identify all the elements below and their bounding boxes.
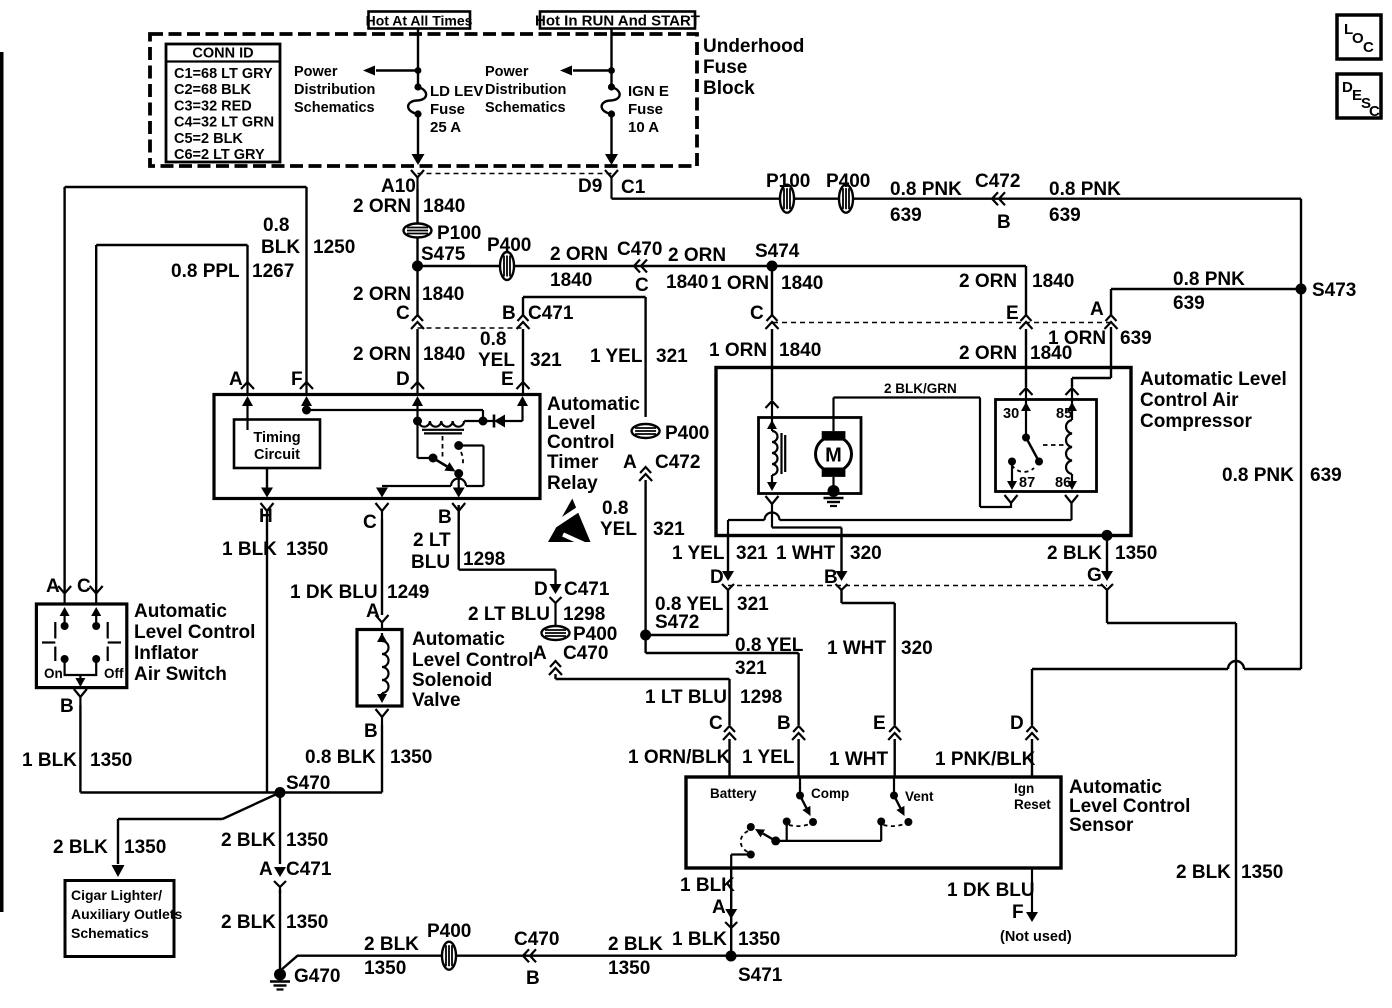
comp travel arc (dashed) — [789, 824, 811, 827]
svg-text:LD LEV: LD LEV — [430, 83, 483, 100]
connector: relay pin C (bottom) — [376, 503, 389, 519]
wire: Hot In RUN And START to IGN E fuse — [610, 28, 612, 87]
sensor battery arm — [755, 829, 776, 841]
svg-text:2 BLK: 2 BLK — [364, 934, 419, 955]
label: Automatic Level Control Timer Relay — [547, 394, 640, 494]
label: Automatic Level Control Solenoid Valve — [412, 629, 533, 711]
label: 0.8 BLK 1350 — [305, 747, 432, 768]
svg-text:C472: C472 — [655, 452, 700, 473]
splice S472 — [640, 630, 651, 641]
wire: S474 to compressor E drop — [772, 265, 1026, 267]
connector terminal D9 — [605, 170, 618, 199]
motor pin stem — [771, 509, 773, 528]
svg-text:0.8: 0.8 — [480, 329, 506, 350]
label: 2 ORN 1840 (S475 drop) — [353, 284, 464, 305]
connector pin G (compressor bottom) — [1101, 535, 1113, 590]
wire: sensor pin F (not used) — [1026, 868, 1038, 922]
grommet P400 (S475 bus) — [500, 252, 514, 280]
svg-text:B: B — [438, 507, 452, 528]
wire: relay F to inflator A (0.8 BLK 1250) — [65, 187, 307, 593]
label: C (C470) — [635, 275, 649, 296]
label: A C470 — [533, 643, 608, 664]
label: C472 — [975, 171, 1020, 192]
svg-text:C2=68 BLK: C2=68 BLK — [174, 82, 251, 98]
svg-text:Block: Block — [703, 78, 755, 99]
svg-text:S472: S472 — [655, 612, 699, 633]
connector: relay pin A — [241, 382, 254, 394]
label: 1 WHT 320 (to sensor E) — [827, 638, 933, 659]
connector: solenoid pin B — [364, 709, 389, 742]
wire: compressor G to ground bus (2 BLK 1350) — [1107, 590, 1236, 956]
label: F (sensor) — [1012, 902, 1024, 923]
svg-text:C1: C1 — [621, 177, 646, 198]
svg-text:Hot In RUN And START: Hot In RUN And START — [535, 13, 700, 30]
svg-text:1350: 1350 — [608, 958, 650, 979]
wire: S470 down (2 BLK 1350) — [279, 793, 281, 865]
svg-text:1350: 1350 — [286, 830, 328, 851]
connector C471 pin A — [274, 867, 286, 893]
wire: ground riser — [281, 956, 298, 970]
label: LD LEV Fuse 25 A — [430, 83, 483, 136]
motor case ground — [824, 477, 844, 506]
svg-text:Sensor: Sensor — [1069, 815, 1134, 836]
connector: relay pin H — [261, 503, 274, 519]
wire: ground bus G470 to S471 to right riser (2 BLK 1350) — [297, 955, 1236, 957]
connector: relay pin F — [300, 382, 313, 394]
compressor assembly: Automatic Level Control Air Compressor box — [716, 368, 1131, 536]
label: 2 ORN 1840 (right of C470) — [666, 245, 726, 293]
label box: Hot At All Times — [366, 12, 473, 29]
svg-text:Off: Off — [104, 666, 124, 681]
wire: sensor D into box — [1031, 739, 1033, 776]
svg-text:1 DK BLU: 1 DK BLU — [947, 880, 1035, 901]
junction: compressor ground pin G — [1102, 530, 1113, 541]
svg-text:2 ORN: 2 ORN — [668, 245, 726, 266]
splice S474 — [755, 241, 800, 272]
label: Automatic Level Control Inflator Air Switch — [134, 601, 255, 685]
wire arrow to Power Distribution Schematics (left) — [363, 66, 418, 76]
ESD sensitivity symbol — [548, 499, 593, 549]
splice S475 — [412, 244, 466, 272]
ground G470 — [270, 969, 290, 990]
svg-text:Battery: Battery — [710, 786, 757, 801]
wire: relay pin F bus to coil/diode node — [302, 406, 488, 426]
svg-text:P400: P400 — [665, 423, 709, 444]
svg-text:2 LT: 2 LT — [413, 530, 451, 551]
svg-text:C: C — [709, 713, 723, 734]
svg-text:0.8 PNK: 0.8 PNK — [890, 179, 962, 200]
sensor assembly: Automatic Level Control Sensor box — [686, 777, 1061, 868]
label: 1 LT BLU 1298 — [645, 687, 782, 708]
svg-text:A: A — [1090, 299, 1104, 320]
label: 2 BLK 1350 (cigar branch) — [53, 837, 166, 858]
inflator right fixed contact — [108, 622, 121, 661]
svg-text:1298: 1298 — [563, 604, 605, 625]
svg-text:C: C — [1363, 39, 1374, 56]
connector pin A (battery exit) — [725, 909, 737, 928]
wire: S475 down (2 ORN 1840) — [416, 266, 418, 317]
svg-text:Vent: Vent — [905, 789, 934, 804]
wire: S474 bus corner down to compressor E — [1025, 266, 1027, 315]
svg-text:Fuse: Fuse — [703, 57, 747, 78]
svg-text:C470: C470 — [617, 239, 662, 260]
connector pin D (compressor bottom) — [722, 535, 734, 590]
wire: fuse to D9 terminal — [605, 114, 618, 165]
svg-text:P400: P400 — [573, 624, 617, 645]
svg-text:1840: 1840 — [423, 344, 465, 365]
wire: NO loop to relay pin C — [376, 486, 451, 498]
label: 2 LT BLU 1298 (below C471) — [468, 604, 605, 625]
vent travel arc (dashed) — [884, 824, 906, 827]
sensor vent switch arm — [890, 777, 905, 816]
wire: relay H to S470 (1 BLK 1350) — [266, 519, 268, 793]
svg-text:Control: Control — [547, 432, 615, 453]
timing circuit box — [234, 420, 320, 469]
svg-text:YEL: YEL — [478, 350, 515, 371]
svg-text:B: B — [60, 696, 74, 717]
svg-text:2 BLK: 2 BLK — [1176, 862, 1231, 883]
svg-text:E: E — [501, 369, 514, 390]
svg-text:1 BLK: 1 BLK — [222, 539, 277, 560]
wire: A10 to S475 — [416, 189, 418, 266]
svg-text:0.8: 0.8 — [602, 498, 628, 519]
labels: On / Off — [44, 666, 124, 681]
svg-text:1 PNK/BLK: 1 PNK/BLK — [935, 749, 1036, 770]
svg-text:Level Control: Level Control — [134, 622, 255, 643]
svg-text:1 ORN: 1 ORN — [709, 340, 767, 361]
svg-text:1 BLK: 1 BLK — [680, 875, 735, 896]
label: H (relay) — [259, 506, 273, 527]
compressor relay box — [996, 400, 1097, 492]
svg-text:0.8 PNK: 0.8 PNK — [1173, 269, 1245, 290]
connector: solenoid pin A — [376, 615, 389, 630]
svg-text:2 ORN: 2 ORN — [353, 196, 411, 217]
label: D (compressor) — [710, 567, 724, 588]
grommet P400 (ground bus) — [442, 942, 456, 970]
fuse F1: LD LEV Fuse 25 A symbol — [408, 83, 426, 117]
svg-text:B: B — [997, 212, 1011, 233]
svg-text:D: D — [1010, 713, 1024, 734]
wire: inflator B to S470 (1 BLK 1350) — [80, 705, 280, 793]
grommet P100 (right) — [780, 185, 794, 213]
svg-text:2 BLK/GRN: 2 BLK/GRN — [884, 381, 957, 396]
svg-text:Automatic Level: Automatic Level — [1140, 369, 1287, 390]
svg-text:C472: C472 — [975, 171, 1020, 192]
grommet P400 (C471-D column) — [542, 626, 570, 640]
svg-text:BLK: BLK — [261, 237, 300, 258]
svg-text:S474: S474 — [755, 241, 800, 262]
label: Power Distribution Schematics (right) — [485, 64, 566, 116]
svg-text:0.8 YEL: 0.8 YEL — [735, 635, 804, 656]
compressor relay coil (85-86) — [1066, 400, 1077, 491]
svg-text:Comp: Comp — [811, 786, 849, 801]
label: Automatic Level Control Air Compressor — [1140, 369, 1287, 432]
label: 0.8 YEL 321 (C471-B to relay E) — [478, 329, 562, 371]
svg-text:C4=32 LT GRN: C4=32 LT GRN — [174, 115, 274, 131]
svg-text:2 BLK: 2 BLK — [221, 830, 276, 851]
svg-text:C470: C470 — [514, 929, 559, 950]
motor M1 (compressor motor) — [816, 436, 852, 472]
label: A (inflator) — [46, 576, 60, 597]
wire: compressor pin D to relay pin 86 (hop over motor stem) — [728, 508, 1072, 535]
label: 2 ORN 1840 (left of C470) — [550, 244, 608, 291]
wire: C471-C to relay pin D (2 ORN 1840) — [416, 329, 418, 382]
wire: 2 BLK/GRN motor to relay pin 87 — [834, 398, 1012, 508]
wire: Hot At All Times to LD LEV fuse — [417, 28, 419, 87]
CONN ID table — [166, 44, 280, 163]
connector: relay pin D — [411, 382, 424, 394]
svg-text:Reset: Reset — [1014, 797, 1051, 812]
relay internal pin A arrow — [242, 396, 253, 430]
svg-text:Fuse: Fuse — [430, 101, 465, 118]
connector: compressor relay pin 85 feed — [1066, 388, 1079, 400]
svg-text:2 ORN: 2 ORN — [353, 284, 411, 305]
wire hop over right riser — [1228, 661, 1244, 669]
label: 0.8 BLK 1250 — [261, 215, 355, 258]
connector C1 boundary (dashed) — [418, 173, 612, 175]
connector: inflator pin C — [90, 586, 103, 604]
svg-text:G470: G470 — [294, 966, 340, 987]
wire: sensor E into box — [894, 739, 896, 776]
wire arrow to Power Distribution Schematics (right) — [560, 66, 612, 76]
svg-text:C: C — [635, 275, 649, 296]
inflator contact A arrow — [60, 607, 70, 630]
svg-text:Timing: Timing — [253, 430, 300, 446]
battery contact dot — [747, 823, 755, 831]
label: 1 YEL 321 — [590, 346, 688, 367]
svg-text:1840: 1840 — [779, 340, 821, 361]
splice S470 — [275, 773, 331, 798]
wire: S473 vertical (0.8 PNK 639) — [1300, 199, 1302, 669]
svg-text:C3=32 RED: C3=32 RED — [174, 98, 252, 114]
svg-text:10 A: 10 A — [628, 119, 659, 136]
label: C (C471) — [396, 303, 410, 324]
svg-text:A: A — [623, 452, 637, 473]
wire: S473 to compressor pin A — [1111, 288, 1301, 290]
label: 0.8 YEL 321 (relay E drop) — [600, 498, 685, 540]
armature travel arc (dashed) — [461, 452, 463, 466]
icon: LOC — [1337, 15, 1381, 59]
svg-text:C: C — [363, 512, 377, 533]
junction at LD LEV fuse feed — [415, 67, 422, 74]
label: 2 BLK 1350 (right of C470) — [608, 934, 663, 979]
connector pin C (sensor) — [723, 726, 736, 740]
label: B (C470) — [526, 968, 540, 989]
label: 2 ORN 1840 (to relay D) — [353, 344, 465, 365]
svg-text:321: 321 — [735, 658, 767, 679]
solenoid L1: Automatic Level Control Solenoid Valve box — [357, 630, 402, 707]
svg-text:A: A — [259, 859, 273, 880]
label: 2 ORN 1840 (E drop upper) — [959, 271, 1074, 292]
svg-text:Automatic: Automatic — [412, 629, 505, 650]
splice S473 — [1296, 280, 1357, 301]
label: E (compressor) — [1006, 303, 1019, 324]
svg-text:Inflator: Inflator — [134, 643, 199, 664]
svg-text:Level Control: Level Control — [1069, 796, 1190, 817]
svg-text:C: C — [77, 576, 91, 597]
label: P400 — [826, 171, 870, 192]
label: 2 BLK/GRN — [884, 381, 957, 396]
svg-text:1298: 1298 — [740, 687, 782, 708]
reference box: Cigar Lighter/Auxiliary Outlets Schematics — [65, 881, 174, 957]
svg-text:Air Switch: Air Switch — [134, 664, 227, 685]
wire: compressor D to S472 (0.8 YEL 321) — [646, 590, 728, 635]
wire: S472 to sensor B (0.8 YEL 321) — [646, 635, 799, 725]
svg-text:Auxiliary Outlets: Auxiliary Outlets — [71, 906, 182, 922]
connector: relay pin E — [517, 382, 530, 394]
svg-text:2 BLK: 2 BLK — [608, 934, 663, 955]
label: Automatic Level Control Sensor — [1069, 777, 1190, 836]
label: D (sensor) — [1010, 713, 1024, 734]
label: P400 (bus) — [487, 235, 531, 256]
connector pin D (sensor) — [1026, 726, 1039, 740]
label: B (C471) — [502, 303, 516, 324]
svg-text:C: C — [1369, 103, 1380, 120]
icon: DESC — [1337, 74, 1381, 120]
label: IGN E Fuse 10 A — [628, 83, 669, 136]
vent riser — [877, 818, 885, 841]
svg-text:C471: C471 — [528, 303, 574, 324]
svg-text:1350: 1350 — [286, 912, 328, 933]
connector: motor assembly pin (below) — [766, 496, 779, 509]
comp riser — [783, 818, 791, 841]
svg-text:E: E — [873, 713, 886, 734]
wire: S474 down to compressor C (1 ORN 1840) — [771, 266, 773, 315]
svg-text:P400: P400 — [487, 235, 531, 256]
wire: motor pin to compressor pin B — [772, 528, 842, 536]
connector: relay pin B (bottom) — [438, 503, 465, 528]
svg-text:M: M — [825, 445, 842, 467]
wire: timing circuit to relay pin H — [261, 468, 273, 498]
label: D (relay) — [396, 369, 410, 390]
label: C1 — [621, 177, 646, 198]
svg-text:Distribution: Distribution — [294, 82, 375, 98]
label: C (sensor) — [709, 713, 723, 734]
connector: inflator pin B — [60, 689, 87, 717]
connector C472 pin A — [639, 467, 652, 481]
label: A (battery exit) — [712, 897, 726, 918]
motor suppression coil — [767, 418, 785, 492]
svg-text:321: 321 — [530, 350, 562, 371]
wire: 1 ORN 639 into relay pin 85 — [1072, 327, 1111, 387]
svg-text:S473: S473 — [1312, 280, 1356, 301]
label: Power Distribution Schematics (left) — [294, 64, 375, 116]
svg-text:1 WHT: 1 WHT — [776, 543, 836, 564]
label: B (sensor) — [777, 713, 791, 734]
connector terminal A10 — [411, 170, 424, 189]
mechanical link (dashed) coil to armature — [442, 436, 444, 458]
svg-text:A: A — [533, 643, 547, 664]
svg-text:1350: 1350 — [90, 750, 132, 771]
svg-text:639: 639 — [1049, 205, 1081, 226]
svg-text:639: 639 — [1120, 328, 1152, 349]
label: 1 WHT (sensor E) — [829, 749, 889, 770]
connector C470 pin C (in-line) — [634, 260, 647, 273]
svg-text:B: B — [364, 721, 378, 742]
relay coil K1 — [413, 417, 464, 434]
svg-text:1840: 1840 — [423, 196, 465, 217]
svg-text:1 YEL: 1 YEL — [672, 543, 725, 564]
svg-text:D: D — [396, 369, 410, 390]
diode CR1 (relay) — [483, 415, 523, 428]
label: F (relay) — [291, 369, 303, 390]
svg-text:1 ORN: 1 ORN — [711, 273, 769, 294]
svg-text:Ign: Ign — [1014, 781, 1034, 796]
label: 0.8 YEL 321 (compressor D leg) — [655, 594, 769, 615]
svg-text:1350: 1350 — [738, 929, 780, 950]
wire: NO contact loop — [459, 446, 484, 487]
label: 1 ORN 1840 (C drop lower) — [709, 340, 821, 361]
svg-text:1 DK BLU: 1 DK BLU — [290, 582, 378, 603]
svg-text:1 WHT: 1 WHT — [827, 638, 887, 659]
svg-text:C470: C470 — [563, 643, 608, 664]
svg-text:Automatic: Automatic — [547, 394, 640, 415]
svg-text:Hot At All Times: Hot At All Times — [366, 13, 473, 29]
label: 0.8 PNK 639 (right of C472) — [1049, 179, 1121, 226]
connector: motor assembly feed — [766, 401, 779, 418]
connector C471 pin B — [517, 315, 530, 329]
connector C470 pin B (in-line) — [523, 949, 536, 962]
relay NO contact dot — [454, 441, 463, 450]
svg-text:0.8: 0.8 — [263, 215, 289, 236]
svg-text:639: 639 — [1310, 465, 1342, 486]
wire: to sensor D (1 PNK/BLK) — [1032, 669, 1228, 725]
labels: relay pins 30 85 87 86 — [1003, 406, 1072, 491]
svg-text:1298: 1298 — [463, 549, 505, 570]
svg-text:Schematics: Schematics — [294, 100, 375, 116]
svg-text:2 BLK: 2 BLK — [53, 837, 108, 858]
label: D9 — [578, 176, 602, 197]
wire: C470-A to sensor C (1 LT BLU 1298) — [556, 674, 730, 725]
svg-text:Automatic: Automatic — [134, 601, 227, 622]
label: 0.8 PPL 1267 — [171, 261, 294, 282]
mechanical link (dashed) — [1043, 444, 1064, 446]
svg-text:D9: D9 — [578, 176, 602, 197]
svg-text:S475: S475 — [421, 244, 466, 265]
svg-text:Circuit: Circuit — [254, 447, 300, 463]
svg-text:B: B — [526, 968, 540, 989]
wire: coil to diode node — [464, 420, 483, 422]
svg-text:2 BLK: 2 BLK — [1047, 543, 1102, 564]
svg-text:C5=2 BLK: C5=2 BLK — [174, 131, 243, 147]
relay armature arm — [433, 458, 456, 472]
svg-text:C471: C471 — [564, 579, 610, 600]
label: P100 — [766, 171, 810, 192]
grommet P400 (relay E drop) — [632, 424, 660, 438]
label: 1 ORN 1840 (C drop upper) — [711, 273, 823, 294]
svg-text:321: 321 — [653, 519, 685, 540]
label: E (relay) — [501, 369, 514, 390]
label: 1 BLK (sensor battery) — [680, 875, 735, 896]
svg-text:1840: 1840 — [550, 270, 592, 291]
svg-text:639: 639 — [890, 205, 922, 226]
label: A (relay) — [229, 369, 243, 390]
relay internal pin E arrow — [517, 396, 528, 421]
svg-text:1 WHT: 1 WHT — [829, 749, 889, 770]
svg-text:320: 320 — [901, 638, 933, 659]
svg-text:1249: 1249 — [387, 582, 429, 603]
motor brush caps — [822, 431, 846, 477]
connector pin C (compressor) — [766, 315, 779, 329]
svg-text:1840: 1840 — [666, 272, 708, 293]
svg-text:1840: 1840 — [422, 284, 464, 305]
svg-text:Timer: Timer — [547, 452, 599, 473]
scan edge artifact (left border line) — [0, 52, 4, 912]
svg-text:B: B — [502, 303, 516, 324]
svg-text:S470: S470 — [286, 773, 330, 794]
svg-text:A: A — [229, 369, 243, 390]
connector: inflator pin A — [58, 586, 71, 604]
